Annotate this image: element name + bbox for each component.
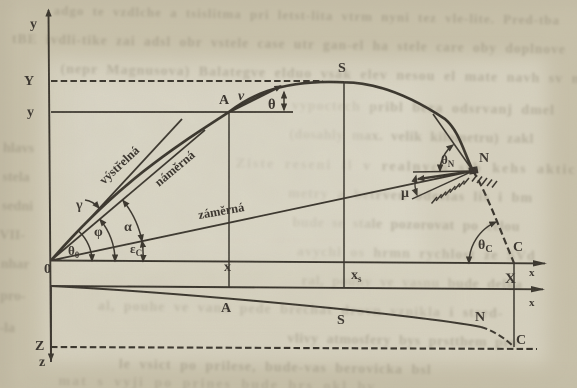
- rotated line labels: [96, 143, 246, 222]
- tangent line at N: [433, 114, 473, 171]
- vertical from A: [228, 112, 230, 288]
- theta0 arc r=41: [79, 232, 92, 261]
- gamma arrow: [85, 200, 99, 208]
- x-axis 2: [51, 286, 543, 289]
- vertical from S: [343, 82, 345, 288]
- thetaN arc r=33: [440, 145, 453, 171]
- z-axis arrow: [50, 286, 52, 360]
- alpha arc r=94 12->40deg: [123, 201, 142, 242]
- zamerna line: [51, 171, 473, 261]
- hatching at N (target): [432, 175, 498, 204]
- N point blob: [468, 166, 478, 174]
- N point construction: [413, 171, 473, 172]
- vystrelna line: [51, 119, 182, 261]
- line3 from N down-left: [412, 171, 473, 199]
- main trajectory curve: [51, 82, 473, 261]
- theta vertical double arrow: [283, 92, 285, 110]
- dashed descent N to C: [473, 171, 514, 263]
- v tangent vector at A: [229, 86, 281, 112]
- x-axis 1: [51, 261, 545, 264]
- dashed Y line: [51, 80, 323, 82]
- mu thick arrow: [418, 171, 473, 179]
- central fade to soften bleed text inside figure: [70, 88, 450, 315]
- phi arc r=64 0->40deg: [100, 220, 115, 262]
- solid y line through A: [51, 111, 293, 113]
- dashed Z line: [51, 347, 537, 349]
- lighter figure area: [42, 58, 547, 363]
- paper grain: [0, 0, 1, 1]
- y-axis: [49, 10, 52, 362]
- namerna line: [51, 130, 205, 261]
- vertical from C: [513, 263, 515, 347]
- ink drawing: [49, 10, 546, 362]
- mu small arc: [415, 176, 417, 195]
- thetaC arc r=45: [469, 222, 496, 263]
- lower earth curve: [51, 286, 481, 327]
- epsC arc r=101 0->12deg: [142, 241, 143, 261]
